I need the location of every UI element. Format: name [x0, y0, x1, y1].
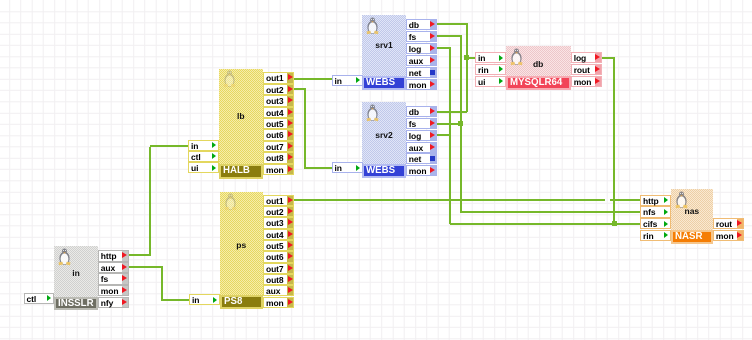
node srv2 (WEBS) [362, 102, 406, 177]
port db.log [571, 52, 602, 63]
port srv1.aux [406, 55, 437, 66]
bar PS8 [220, 295, 264, 309]
wire bus -> db.in stub [467, 57, 476, 59]
port srv2.in [332, 162, 363, 173]
tux icon in [57, 248, 72, 266]
port in.nfy [98, 297, 129, 309]
label db [506, 59, 571, 69]
port srv2.log [406, 130, 437, 141]
node lb (HALB) [219, 69, 263, 180]
label nas [671, 206, 714, 216]
port lb.out3 [263, 95, 294, 106]
wire in.aux -> ps.in seg2 [161, 266, 163, 301]
wire ps.out1 -> nas.http seg1 [293, 199, 605, 201]
wire srv2.db -> bus [435, 111, 467, 113]
port nas.nfs [640, 206, 671, 217]
port db.ui [475, 76, 506, 87]
wire srv1.fs -> bus seg1 [435, 35, 462, 37]
wire fs bus -> nas.nfs [461, 211, 641, 213]
junction junction db.log / cifs line [612, 221, 617, 226]
port lb.out4 [263, 107, 294, 118]
port srv2.aux [406, 142, 437, 153]
port lb.out6 [263, 129, 294, 140]
wire ps.out1 -> nas.http seg2 [610, 199, 641, 201]
port ps.aux [263, 285, 294, 296]
port lb.out7 [263, 141, 294, 152]
port ps.out1 [263, 195, 294, 206]
node nas (NASR) [671, 189, 714, 243]
port lb.out1 [263, 72, 294, 83]
port ps.out7 [263, 263, 294, 274]
bar INSSLR [54, 297, 98, 310]
port ps.out2 [263, 206, 294, 217]
port in.aux [98, 262, 129, 274]
port ps.out3 [263, 217, 294, 228]
port ps.out6 [263, 251, 294, 262]
port nas.cifs [640, 218, 671, 229]
wire in.aux -> ps.in seg1 [127, 266, 163, 268]
port srv2.db [406, 106, 437, 117]
port lb.out8 [263, 152, 294, 163]
port srv1.in [332, 75, 363, 86]
bar HALB [219, 164, 263, 179]
label in [54, 268, 98, 278]
bar WEBS [362, 76, 406, 91]
port nas.rin [640, 230, 671, 241]
port srv1.db [406, 19, 437, 30]
wire lb.out2 -> srv2.in seg1 [293, 88, 306, 90]
tux icon lb [222, 70, 237, 88]
port ps.mon [263, 297, 294, 308]
tux icon srv1 [365, 17, 380, 35]
wire log bus -> nas.cifs [450, 223, 641, 225]
port nas.rout [713, 218, 744, 229]
wire srv1.log -> bus seg1 [435, 47, 451, 49]
port ps.out5 [263, 240, 294, 251]
port db.mon [571, 76, 602, 87]
port lb.ctl [188, 151, 219, 162]
port ps.out8 [263, 274, 294, 285]
port in.ctl [24, 293, 55, 304]
port ps.in [189, 294, 220, 305]
node db (MYSQLR64) [506, 46, 571, 90]
port db.in [475, 52, 506, 63]
wire lb.out2 -> srv2.in seg3 [305, 167, 332, 169]
label ps [220, 240, 264, 250]
bar NASR [671, 230, 714, 244]
port lb.out5 [263, 118, 294, 129]
wire db.log -> down seg1 [601, 57, 615, 59]
wire lb.out2 -> srv2.in seg2 [304, 88, 306, 168]
wire fs bus vertical [460, 35, 462, 213]
label srv1 [362, 40, 406, 50]
port lb.in [188, 140, 219, 151]
node srv1 (WEBS) [362, 15, 406, 90]
port srv2.fs [406, 118, 437, 129]
bar MYSQLR64 [506, 76, 571, 90]
port nas.mon [713, 230, 744, 241]
port lb.ui [188, 162, 219, 173]
port srv2.mon [406, 165, 437, 176]
port srv1.log [406, 43, 437, 54]
port db.rout [571, 64, 602, 75]
wire in.http -> lb.in seg3 [150, 145, 188, 147]
junction junction db bus / db.in [464, 55, 469, 60]
wire srv2.log -> bus [435, 134, 450, 136]
port ps.out4 [263, 229, 294, 240]
wire log bus vertical [449, 47, 451, 224]
port lb.mon [263, 164, 294, 175]
wire db bus vertical [466, 23, 468, 112]
tux icon ps [223, 193, 238, 211]
label lb [219, 111, 263, 121]
port srv1.net [406, 67, 437, 78]
node ps (PS8) [220, 192, 264, 310]
junction junction fs bus / srv2.fs [458, 121, 463, 126]
port nas.http [640, 195, 671, 206]
node in (INSSLR) [54, 246, 98, 310]
wire srv2.fs -> bus [435, 123, 461, 125]
wire in.aux -> ps.in seg3 [162, 299, 189, 301]
wire in.http -> lb.in seg1 [127, 254, 151, 256]
wire in.http -> lb.in seg2 [149, 147, 151, 254]
port in.mon [98, 285, 129, 297]
bar WEBS [362, 164, 406, 178]
tux icon nas [674, 191, 689, 209]
port srv1.fs [406, 31, 437, 42]
tux icon srv2 [365, 104, 380, 122]
wire lb.out1 -> srv1.in [293, 78, 332, 80]
label srv2 [362, 130, 406, 140]
port srv1.mon [406, 79, 437, 90]
port in.fs [98, 273, 129, 285]
tux icon db [509, 48, 524, 66]
wire srv1.db -> bus seg1 [435, 23, 468, 25]
port srv2.net [406, 153, 437, 164]
port in.http [98, 250, 129, 262]
wire db.log -> down seg2 [613, 57, 615, 224]
port lb.out2 [263, 84, 294, 95]
port db.rin [475, 64, 506, 75]
